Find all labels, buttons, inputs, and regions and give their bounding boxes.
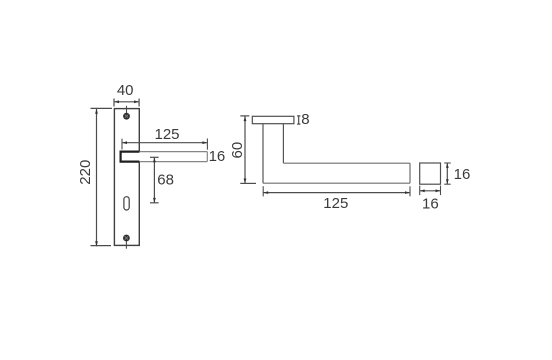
dimension 16 horizontal line (420, 189, 441, 192)
screw centerline top (126, 106, 128, 116)
dimension 60 ticks (240, 116, 256, 183)
svg-text:68: 68 (157, 172, 174, 189)
svg-text:16: 16 (454, 166, 471, 183)
dimension 16 vertical ticks (444, 163, 451, 184)
spindle square (420, 163, 441, 184)
dimension 16 horizontal ticks (420, 186, 441, 196)
svg-text:16: 16 (422, 195, 439, 212)
dimension 8 line (298, 116, 300, 124)
dimension 68 ticks (150, 157, 159, 203)
dimension 125 top line (122, 141, 207, 144)
handle neck front view thick outline (121, 152, 140, 162)
svg-text:220: 220 (77, 160, 94, 185)
svg-text:8: 8 (301, 111, 309, 128)
svg-text:40: 40 (117, 82, 134, 99)
dimension 40 line (114, 100, 139, 103)
dimension 125 bottom extension ticks (263, 186, 410, 196)
dimension 220 line (95, 109, 98, 246)
screw bottom (123, 235, 130, 242)
screw centerline bottom (125, 238, 127, 249)
svg-text:60: 60 (229, 142, 246, 159)
dimension 8 ticks (297, 116, 300, 124)
dimension 125 bottom line (263, 191, 410, 194)
dimension 40 extension ticks (114, 99, 139, 107)
svg-text:125: 125 (323, 195, 348, 212)
backplate (114, 109, 139, 246)
handle lever front view thin outline (139, 152, 207, 162)
dimension 125 top extension ticks (122, 139, 207, 150)
handle rose side view (252, 116, 294, 123)
dimension 16 vertical line (446, 163, 449, 184)
dimension 220 extension lines (91, 108, 113, 245)
keyhole (124, 197, 129, 210)
handle lever side view (263, 163, 410, 183)
dimension 68 line (153, 157, 156, 203)
svg-text:125: 125 (154, 126, 179, 143)
handle stem side view (263, 124, 283, 184)
handle lever front view fill (121, 152, 208, 162)
svg-text:16: 16 (209, 148, 226, 165)
dimension 60 line (244, 116, 247, 183)
screw top (123, 113, 130, 120)
